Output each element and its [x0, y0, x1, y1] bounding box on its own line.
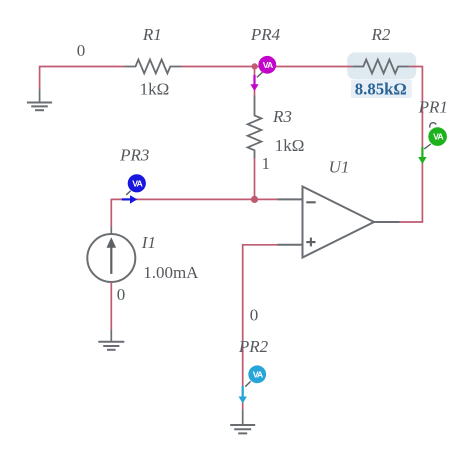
wire gray stub to ground G2: [110, 330, 112, 342]
wire short red below PR2 arrow: [242, 404, 244, 410]
wire PR3 horizontal (node 1): [111, 198, 277, 200]
svg-text:1kΩ: 1kΩ: [275, 136, 305, 155]
wire R3 bottom to node 1 junction: [254, 158, 256, 199]
resistor R1: [125, 60, 182, 74]
wire top left horizontal (node 0): [40, 66, 125, 68]
probe PR2: [239, 365, 267, 403]
node junction dot PR4: [252, 63, 258, 69]
wire gray stub to ground G1: [39, 89, 41, 102]
wire plus input down (node 0) to PR2/ground: [243, 245, 278, 404]
svg-text:U1: U1: [329, 158, 350, 177]
svg-text:I1: I1: [141, 233, 156, 252]
wire left vertical to ground: [39, 66, 41, 89]
svg-text:1kΩ: 1kΩ: [140, 80, 170, 99]
wire I1 top vertical: [110, 199, 112, 227]
wire gray stub to ground G3: [242, 410, 244, 426]
node junction dot 1: [251, 196, 258, 203]
R2 value background: [351, 80, 412, 98]
wire R2 right, corner down to op-amp output: [400, 67, 423, 223]
op-amp plus pin symbol: [306, 238, 315, 247]
svg-text:R1: R1: [142, 25, 162, 44]
R2 selection highlight: [347, 53, 416, 80]
current source I1: [87, 234, 135, 282]
svg-text:PR1: PR1: [418, 97, 448, 116]
svg-text:VA: VA: [253, 369, 264, 379]
probe PR4: [250, 56, 276, 91]
svg-text:PR4: PR4: [250, 25, 281, 44]
op-amp U1: [278, 187, 400, 258]
wire R1 to R2 (through node at 254.5): [182, 66, 353, 68]
svg-text:VA: VA: [132, 178, 143, 188]
probe PR3: [122, 174, 146, 203]
svg-text:0: 0: [77, 41, 86, 60]
ground (below PR2): [230, 425, 255, 433]
resistor R2: [352, 60, 409, 74]
wire gray stub into I1: [110, 227, 112, 234]
probe PR1: [418, 123, 447, 164]
svg-text:PR3: PR3: [119, 146, 149, 165]
wire I1 bottom to ground G2: [110, 282, 112, 330]
ground (node 0, top-left): [27, 103, 52, 111]
svg-text:0: 0: [250, 305, 259, 324]
ground (below I1): [98, 342, 124, 350]
svg-text:8.85kΩ: 8.85kΩ: [355, 79, 407, 98]
svg-text:VA: VA: [433, 132, 444, 142]
resistor R3: [248, 96, 262, 159]
svg-text:R3: R3: [272, 107, 292, 126]
svg-text:0: 0: [117, 285, 126, 304]
op-amp minus pin symbol: [306, 201, 315, 203]
svg-text:VA: VA: [263, 60, 274, 70]
wire node PR4 down to R3: [254, 67, 256, 96]
svg-text:R2: R2: [370, 25, 390, 44]
svg-text:1: 1: [262, 154, 271, 173]
svg-text:PR2: PR2: [238, 337, 269, 356]
svg-text:1.00mA: 1.00mA: [143, 263, 199, 282]
